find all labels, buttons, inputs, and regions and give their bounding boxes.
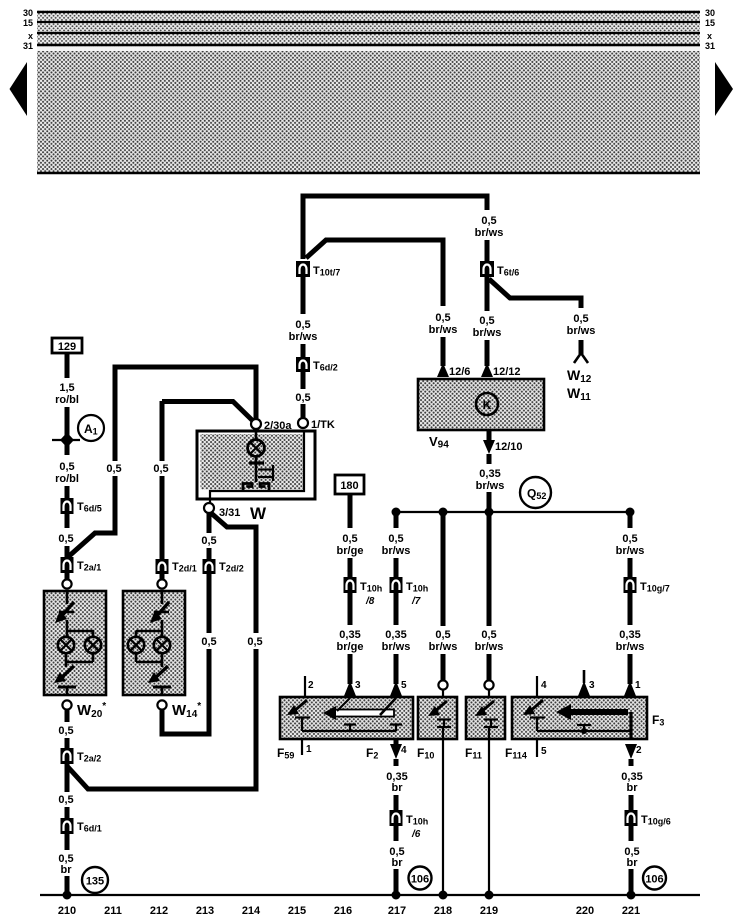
- wire: [65, 514, 70, 528]
- svg-text:br/ws: br/ws: [429, 641, 458, 653]
- wire 12/6 lower: [441, 337, 446, 366]
- svg-text:12/6: 12/6: [449, 366, 470, 378]
- svg-text:213: 213: [196, 905, 214, 917]
- wire down to T2a/2 run: [67, 649, 256, 789]
- pin arrow 5: [390, 681, 402, 696]
- junction: [627, 891, 636, 900]
- svg-text:2: 2: [636, 745, 642, 756]
- connector T6t/6: [480, 261, 494, 277]
- glovebox light W: [197, 431, 315, 499]
- terminal 2/30a: [251, 419, 261, 429]
- pin 3 stub: [583, 670, 586, 683]
- wire: [65, 834, 70, 850]
- wire: [65, 876, 70, 895]
- svg-text:0,5: 0,5: [58, 725, 73, 737]
- terminal 1/TK: [298, 418, 308, 428]
- svg-text:1: 1: [306, 744, 312, 755]
- wire 3/31 down: [207, 512, 212, 533]
- svg-text:1,5: 1,5: [59, 382, 74, 394]
- wire: [394, 593, 399, 625]
- connector T2a/2: [61, 748, 74, 764]
- svg-text:br/ws: br/ws: [616, 641, 645, 653]
- svg-text:br/ws: br/ws: [475, 227, 504, 239]
- wire: [65, 546, 70, 557]
- wire from 0,5 branch top: [113, 369, 118, 461]
- svg-text:1/TK: 1/TK: [311, 419, 335, 431]
- svg-text:br/ws: br/ws: [616, 545, 645, 557]
- wire from Q52 node: [394, 512, 399, 528]
- svg-text:4: 4: [401, 745, 407, 756]
- lamp W14: [123, 591, 185, 695]
- ground 106: [409, 867, 432, 890]
- svg-text:0,5: 0,5: [201, 636, 216, 648]
- svg-text:30: 30: [23, 8, 33, 18]
- wire: [65, 764, 70, 792]
- wire top interconnect T10t/7 to T6t/6: [303, 196, 487, 259]
- svg-text:br/ge: br/ge: [337, 641, 364, 653]
- svg-text:T2d/2: T2d/2: [219, 561, 244, 574]
- wire below W20: [65, 709, 70, 722]
- connector T10g/7: [624, 577, 637, 593]
- wire: [628, 654, 633, 684]
- svg-text:0,5: 0,5: [247, 636, 262, 648]
- wire: [629, 795, 634, 810]
- wire: [65, 738, 70, 748]
- node Q52 label: [520, 477, 551, 508]
- svg-text:3: 3: [589, 680, 595, 691]
- svg-text:/6: /6: [411, 829, 421, 840]
- svg-text:T6d/2: T6d/2: [313, 360, 338, 373]
- F2 contact blade: [334, 710, 394, 717]
- svg-text:215: 215: [288, 905, 306, 917]
- node A1: [78, 415, 104, 441]
- svg-text:12/12: 12/12: [493, 366, 521, 378]
- bus x: [37, 32, 700, 34]
- svg-text:0,5: 0,5: [481, 215, 496, 227]
- connector T10t/7: [296, 261, 310, 277]
- svg-text:31: 31: [23, 41, 33, 51]
- wire elbow to W14: [162, 649, 209, 734]
- wire F10 to ground rail: [442, 739, 444, 895]
- pin arrow 1: [624, 681, 636, 696]
- wire 0,35 br/ws to node: [487, 454, 492, 464]
- svg-text:x: x: [707, 31, 712, 41]
- svg-text:0,5: 0,5: [342, 533, 357, 545]
- F59 internals: [293, 700, 307, 712]
- svg-text:31: 31: [705, 41, 715, 51]
- svg-text:0,5: 0,5: [573, 313, 588, 325]
- svg-text:0,5: 0,5: [106, 463, 121, 475]
- junction: [63, 891, 72, 900]
- svg-text:T6d/5: T6d/5: [77, 501, 102, 514]
- svg-text:T10g/7: T10g/7: [640, 581, 670, 594]
- svg-text:221: 221: [622, 905, 640, 917]
- wire: [301, 404, 306, 418]
- svg-text:0,5: 0,5: [388, 533, 403, 545]
- wire below T10t/7: [301, 277, 306, 314]
- wire right from Q52 node: [628, 512, 633, 528]
- fuse F10: [418, 697, 457, 739]
- power rail band: [37, 10, 700, 173]
- F3 contact blade: [566, 709, 628, 715]
- svg-text:135: 135: [86, 876, 104, 888]
- svg-text:T10t/7: T10t/7: [313, 265, 340, 278]
- svg-text:0,35: 0,35: [385, 629, 406, 641]
- svg-text:2: 2: [308, 680, 314, 691]
- svg-text:ro/bl: ro/bl: [55, 473, 79, 485]
- wire below T6t/6: [485, 277, 490, 311]
- wire branch 3/31 to right: [211, 513, 256, 633]
- ground 135: [82, 867, 108, 893]
- svg-text:T6d/1: T6d/1: [77, 821, 102, 834]
- wire: [207, 574, 212, 633]
- svg-text:br/ws: br/ws: [473, 327, 502, 339]
- fuse block F59 F2: [280, 697, 413, 739]
- svg-text:0,5: 0,5: [435, 629, 450, 641]
- wire: [394, 795, 399, 810]
- svg-text:216: 216: [334, 905, 352, 917]
- svg-text:0,5: 0,5: [435, 312, 450, 324]
- svg-text:br: br: [392, 857, 404, 869]
- svg-text:106: 106: [645, 874, 663, 886]
- wire branch to 2/30a: [162, 402, 253, 422]
- pin arrow 2 down: [625, 744, 637, 759]
- svg-text:211: 211: [104, 905, 122, 917]
- connector T6d/2: [296, 357, 310, 372]
- junction: [439, 508, 448, 517]
- svg-text:0,35: 0,35: [479, 468, 500, 480]
- fuse F11: [466, 697, 505, 739]
- svg-text:T10h: T10h: [406, 581, 428, 594]
- svg-text:T2a/1: T2a/1: [77, 560, 101, 573]
- svg-text:x: x: [28, 31, 33, 41]
- svg-text:0,5: 0,5: [201, 535, 216, 547]
- svg-text:220: 220: [576, 905, 594, 917]
- wire: [628, 593, 633, 625]
- svg-text:218: 218: [434, 905, 452, 917]
- pin 1 stub: [301, 739, 303, 755]
- connector 180: [335, 475, 364, 494]
- wire to W12: [579, 340, 584, 354]
- wire branch to V94 12/6: [306, 240, 443, 306]
- wire: [394, 558, 399, 577]
- terminal 3/31: [204, 503, 214, 513]
- pin 4 stub: [536, 676, 538, 697]
- svg-text:br/ws: br/ws: [289, 331, 318, 343]
- connector T6d/1: [61, 818, 74, 834]
- wire: [348, 494, 353, 528]
- svg-text:K: K: [483, 398, 492, 412]
- wire F11 to ground rail: [488, 739, 490, 895]
- wire: [348, 654, 353, 684]
- wire: [160, 574, 165, 579]
- wire to F11: [487, 512, 492, 626]
- fuse block F114 F3: [512, 697, 647, 739]
- bus 31: [37, 44, 700, 47]
- wire: [160, 476, 165, 559]
- svg-text:219: 219: [480, 905, 498, 917]
- junction: [626, 508, 635, 517]
- svg-text:0,35: 0,35: [619, 629, 640, 641]
- pin arrow 3: [344, 681, 356, 696]
- svg-text:T10h: T10h: [360, 581, 382, 594]
- wire branch top run to 2/30a: [113, 367, 257, 421]
- svg-text:3: 3: [355, 680, 361, 691]
- pin arrow 12/6: [437, 363, 449, 377]
- svg-text:15: 15: [705, 18, 715, 28]
- svg-text:T10h: T10h: [406, 814, 428, 827]
- connector T10g/6: [625, 810, 638, 826]
- svg-text:0,5: 0,5: [58, 533, 73, 545]
- svg-text:br/ws: br/ws: [429, 324, 458, 336]
- connector T6d/5: [61, 498, 74, 514]
- svg-text:br/ws: br/ws: [382, 641, 411, 653]
- wire: [394, 869, 399, 895]
- terminal: [62, 579, 71, 588]
- svg-text:15: 15: [23, 18, 33, 28]
- svg-text:5: 5: [541, 746, 547, 757]
- relay V94: [418, 379, 544, 430]
- junction: [392, 508, 401, 517]
- wire below F2 pin 4: [394, 759, 399, 766]
- svg-text:106: 106: [411, 874, 429, 886]
- wire: [485, 240, 490, 261]
- svg-text:180: 180: [340, 480, 358, 492]
- svg-text:0,5: 0,5: [295, 392, 310, 404]
- wire from 0,5 second branch: [160, 401, 165, 461]
- svg-text:T6t/6: T6t/6: [497, 265, 519, 278]
- ground 106 right: [643, 867, 666, 890]
- wire: [628, 558, 633, 577]
- svg-text:0,5: 0,5: [481, 629, 496, 641]
- svg-text:0,5: 0,5: [58, 794, 73, 806]
- wire below F3 pin 2: [629, 759, 634, 766]
- F114 internals: [529, 700, 543, 712]
- wire: [348, 558, 353, 577]
- wire branch to W12/W11: [489, 279, 581, 308]
- wire: [485, 340, 490, 366]
- svg-text:br/ws: br/ws: [475, 641, 504, 653]
- connector T2d/1: [156, 559, 169, 574]
- connector T10h/7: [390, 577, 403, 593]
- wire: [629, 869, 634, 895]
- svg-text:5: 5: [401, 680, 407, 691]
- wire: [441, 654, 446, 680]
- svg-text:br: br: [392, 782, 404, 794]
- open end chevron W12: [574, 353, 588, 363]
- svg-text:br/ge: br/ge: [337, 545, 364, 557]
- wire: [394, 654, 399, 684]
- wire: [65, 807, 70, 818]
- svg-text:0,5: 0,5: [59, 461, 74, 473]
- wire: [65, 353, 70, 378]
- svg-text:3/31: 3/31: [219, 507, 240, 519]
- wire: [65, 573, 70, 580]
- pin arrow 4 down: [394, 739, 399, 745]
- svg-text:/7: /7: [411, 596, 421, 607]
- terminal: [157, 579, 166, 588]
- terminal: [484, 680, 493, 689]
- svg-text:0,5: 0,5: [153, 463, 168, 475]
- svg-text:12/10: 12/10: [495, 441, 523, 453]
- wire to F10: [441, 512, 446, 626]
- junction: [392, 891, 401, 900]
- svg-text:br/ws: br/ws: [382, 545, 411, 557]
- wire: [487, 654, 492, 680]
- bus 30: [37, 11, 700, 13]
- wire: [68, 476, 115, 557]
- svg-text:0,5: 0,5: [295, 319, 310, 331]
- svg-text:0,5: 0,5: [622, 533, 637, 545]
- internal link: [537, 730, 631, 732]
- pin arrow 12/12: [481, 363, 493, 377]
- internal lamp: [255, 429, 258, 440]
- svg-text:1: 1: [635, 680, 641, 691]
- terminal: [438, 680, 447, 689]
- svg-text:br: br: [61, 864, 73, 876]
- wire: [207, 548, 212, 559]
- svg-text:0,5: 0,5: [479, 315, 494, 327]
- svg-text:br: br: [627, 857, 639, 869]
- svg-text:W: W: [250, 504, 267, 523]
- svg-text:br/ws: br/ws: [476, 480, 505, 492]
- svg-text:T10g/6: T10g/6: [641, 814, 671, 827]
- connector T10h/6: [390, 810, 403, 826]
- pin 2 stub: [304, 676, 306, 697]
- band bottom edge: [37, 172, 700, 175]
- wire: [65, 407, 70, 455]
- internal switch: [255, 456, 258, 462]
- lamp W20: [44, 591, 106, 695]
- connector T2d/2: [203, 559, 216, 574]
- svg-text:30: 30: [705, 8, 715, 18]
- wire: [394, 826, 399, 841]
- connector T2a/1: [61, 557, 74, 573]
- terminal: [62, 700, 71, 709]
- connector 129: [52, 338, 82, 353]
- svg-text:210: 210: [58, 905, 76, 917]
- wire: [65, 486, 70, 498]
- junction: [485, 891, 494, 900]
- terminal: [157, 700, 166, 709]
- left continuation arrow: [10, 62, 28, 116]
- svg-text:214: 214: [242, 905, 261, 917]
- ground rail: [40, 894, 700, 896]
- internal link: [302, 730, 396, 732]
- svg-text:/8: /8: [365, 596, 375, 607]
- internal wire W: [210, 431, 304, 503]
- svg-text:br/ws: br/ws: [567, 325, 596, 337]
- svg-text:ro/bl: ro/bl: [55, 394, 79, 406]
- svg-text:4: 4: [541, 680, 547, 691]
- junction tick: [52, 439, 80, 441]
- svg-text:212: 212: [150, 905, 168, 917]
- svg-text:0,35: 0,35: [339, 629, 360, 641]
- junction: [485, 508, 494, 517]
- wire: [301, 372, 306, 389]
- junction: [439, 891, 448, 900]
- svg-text:129: 129: [58, 341, 76, 353]
- connector T10h/8: [344, 577, 357, 593]
- right continuation arrow: [715, 62, 733, 116]
- junction diamond: [60, 433, 74, 448]
- wire: [629, 826, 634, 841]
- wire: [301, 344, 306, 357]
- svg-text:217: 217: [388, 905, 406, 917]
- wire: [348, 593, 353, 625]
- pin 5 stub: [536, 739, 538, 757]
- svg-text:T2d/1: T2d/1: [172, 561, 197, 574]
- svg-text:2/30a: 2/30a: [264, 420, 292, 432]
- pin arrow 12/10: [487, 430, 492, 441]
- bus wire of node Q52: [396, 511, 630, 513]
- svg-text:T2a/2: T2a/2: [77, 751, 101, 764]
- svg-text:br: br: [627, 782, 639, 794]
- bus 15: [37, 21, 700, 23]
